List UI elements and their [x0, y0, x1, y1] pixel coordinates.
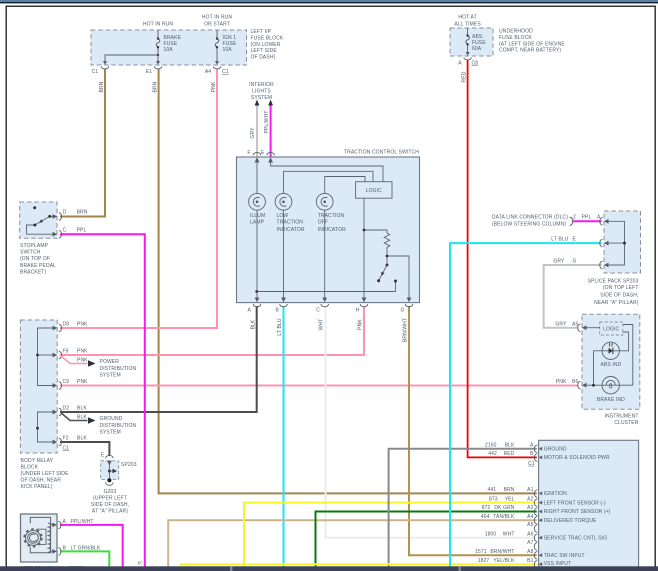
svg-text:C: C: [63, 227, 67, 233]
wheel speed sensor box: [21, 514, 58, 562]
svg-text:HOT AT: HOT AT: [458, 15, 476, 21]
branch PNK to power distribution: [61, 356, 88, 364]
svg-text:B: B: [276, 308, 280, 314]
svg-text:D8: D8: [63, 321, 70, 327]
EBCM pin A7: [534, 543, 537, 551]
coil leads to pins: [48, 523, 53, 552]
pin G (bottom): [407, 298, 412, 303]
svg-text:RED: RED: [504, 451, 515, 457]
wire traction off lamp to pin C: [324, 210, 326, 300]
svg-text:(AT LEFT SIDE OF ENGINE: (AT LEFT SIDE OF ENGINE: [499, 41, 565, 47]
svg-text:E1: E1: [146, 69, 152, 75]
wire PNK body relay C9 to cluster B6: [60, 385, 579, 387]
wire abs ind left to B6 wire: [594, 351, 603, 385]
pin A5: [582, 325, 587, 330]
svg-text:PNK: PNK: [211, 81, 217, 92]
pin A: [604, 219, 609, 224]
pin F9: [53, 353, 58, 358]
svg-text:LOW: LOW: [277, 213, 289, 219]
svg-text:2150: 2150: [485, 442, 497, 448]
svg-text:BRAKE IND: BRAKE IND: [597, 397, 625, 403]
wire PPL stoplamp C down page: [60, 234, 145, 566]
BRAKE IND lamp: [602, 377, 619, 394]
svg-text:873: 873: [489, 496, 498, 502]
svg-text:OFF: OFF: [318, 220, 328, 226]
pin B (bottom): [281, 298, 286, 303]
wire PPL/WHT sensor A down page: [60, 525, 123, 567]
tone wheel rings: [26, 530, 41, 545]
ABS IND led: [602, 342, 619, 359]
svg-text:BRN/WHT: BRN/WHT: [490, 549, 514, 555]
wire logic to abs ind right: [619, 332, 628, 351]
svg-text:HOT IN RUN: HOT IN RUN: [202, 15, 233, 21]
arrow to interior lights (GRY): [255, 100, 260, 106]
svg-text:SYSTEM: SYSTEM: [251, 95, 272, 101]
traction control switch box: [237, 157, 420, 303]
logic box: [356, 182, 392, 199]
svg-text:SWITCH: SWITCH: [20, 250, 41, 256]
svg-text:BODY RELAY: BODY RELAY: [21, 458, 54, 464]
underhood fuse block box: [450, 28, 493, 56]
svg-text:1827: 1827: [478, 558, 490, 564]
svg-text:OR START: OR START: [204, 22, 230, 28]
svg-text:PPL: PPL: [582, 215, 592, 221]
sensor core C-bracket: [30, 517, 50, 552]
wire low traction lamp to logic: [284, 171, 374, 193]
svg-text:SPLICE PACK SP203: SPLICE PACK SP203: [588, 278, 639, 284]
pin D: [53, 214, 58, 219]
pin D8: [53, 326, 58, 331]
wire YEL/BLK bottom to EBCM: [181, 564, 537, 566]
wire low traction lamp to pin B: [283, 210, 285, 300]
svg-text:D: D: [63, 210, 67, 216]
svg-text:441: 441: [487, 487, 496, 493]
svg-text:RIGHT FRONT SENSOR (+): RIGHT FRONT SENSOR (+): [544, 509, 611, 515]
svg-text:INSTRUMENT: INSTRUMENT: [605, 414, 639, 420]
wire PPL DLC to splice pack A: [572, 220, 601, 222]
svg-text:HOT IN RUN: HOT IN RUN: [143, 22, 174, 28]
svg-text:SYSTEM: SYSTEM: [100, 373, 121, 379]
svg-text:C1: C1: [222, 69, 229, 75]
svg-text:PNK: PNK: [358, 319, 364, 330]
EBCM pin A2: [534, 499, 537, 507]
ground G203: [107, 478, 111, 482]
svg-text:(ON TOP LEFT: (ON TOP LEFT: [603, 285, 639, 291]
wire PPL/WHT TCS E to interior lights: [270, 104, 272, 157]
stoplamp switch box: [20, 202, 57, 238]
svg-text:PNK: PNK: [77, 321, 88, 327]
svg-text:A: A: [530, 442, 534, 448]
wire PNK from fuse A4 to body relay D8: [60, 69, 217, 328]
svg-text:A1: A1: [527, 487, 533, 493]
arrow ground distribution: [88, 417, 96, 423]
svg-text:A: A: [458, 61, 462, 67]
arrow to interior lights (PPL/WHT): [268, 100, 273, 106]
svg-text:LT BLU: LT BLU: [551, 237, 568, 243]
wire BRN from fuse E1 to EBCM A1: [159, 69, 537, 493]
svg-text:A2: A2: [527, 496, 533, 502]
svg-text:ALL TIMES: ALL TIMES: [454, 22, 481, 28]
svg-text:A4: A4: [205, 69, 211, 75]
svg-text:60A: 60A: [472, 46, 482, 52]
svg-text:C1: C1: [92, 69, 99, 75]
pin E: [604, 241, 609, 246]
svg-text:(UNDER LEFT SIDE: (UNDER LEFT SIDE: [21, 471, 69, 477]
wire RED ABS fuse to EBCM B: [468, 60, 537, 458]
svg-text:SP203: SP203: [121, 462, 137, 468]
svg-text:KICK PANEL): KICK PANEL): [21, 484, 53, 490]
EBCM pin A3: [534, 508, 537, 516]
svg-text:PPL: PPL: [77, 227, 87, 233]
pin C: [53, 232, 58, 237]
pin B6: [582, 383, 587, 388]
pin A4 / C1: [215, 61, 219, 65]
svg-text:LT GRN/BLK: LT GRN/BLK: [71, 546, 101, 552]
svg-text:E: E: [573, 237, 577, 243]
svg-text:FUSE BLOCK: FUSE BLOCK: [251, 35, 284, 41]
svg-text:SIDE OF DASH,: SIDE OF DASH,: [91, 502, 129, 508]
svg-text:G203: G203: [104, 489, 117, 495]
svg-text:G: G: [573, 259, 577, 265]
svg-text:B: B: [530, 451, 534, 457]
svg-text:NEAR "A" PILLAR): NEAR "A" PILLAR): [594, 300, 639, 306]
svg-text:YEL: YEL: [505, 496, 515, 502]
svg-text:C1: C1: [528, 461, 535, 467]
svg-text:A4: A4: [527, 514, 533, 520]
tone wheel teeth: [24, 529, 41, 546]
svg-text:DELIVERED TORQUE: DELIVERED TORQUE: [544, 518, 597, 524]
fuse ABS FUSE 60A: [466, 28, 470, 53]
traction off indicator lamp: [316, 193, 333, 210]
svg-text:1571: 1571: [475, 549, 487, 555]
svg-text:MOTOR & SOLENOID PWR: MOTOR & SOLENOID PWR: [544, 455, 610, 461]
svg-text:POWER: POWER: [100, 359, 120, 365]
svg-text:SIDE OF DASH,: SIDE OF DASH,: [600, 293, 638, 299]
svg-text:SYSTEM: SYSTEM: [100, 430, 121, 436]
EBCM pin A4: [534, 517, 537, 525]
svg-text:B1: B1: [527, 558, 533, 564]
svg-text:x²: x²: [138, 561, 143, 567]
svg-text:10A: 10A: [164, 47, 174, 53]
svg-text:464: 464: [481, 514, 490, 520]
svg-text:BLK: BLK: [505, 442, 515, 448]
svg-text:GROUND: GROUND: [100, 416, 123, 422]
svg-text:INDICATOR: INDICATOR: [318, 227, 346, 233]
sensor coil: [48, 523, 50, 552]
svg-text:A7: A7: [527, 540, 533, 546]
svg-text:C1: C1: [63, 446, 70, 452]
svg-text:BRN: BRN: [99, 81, 105, 92]
svg-text:E: E: [261, 150, 265, 156]
left I/P fuse block box: [91, 30, 247, 65]
svg-text:WHT: WHT: [318, 319, 324, 331]
svg-text:B6: B6: [572, 379, 578, 385]
pin C1: [103, 61, 107, 65]
svg-text:YEL/BLK: YEL/BLK: [493, 558, 515, 564]
svg-text:(UPPER LEFT: (UPPER LEFT: [93, 496, 127, 502]
svg-text:A6: A6: [527, 531, 533, 537]
EBCM pin A1: [534, 490, 537, 498]
pin H (bottom): [362, 298, 367, 303]
fuse IGN 1 FUSE 10A: [215, 30, 219, 62]
svg-text:DISTRIBUTION: DISTRIBUTION: [100, 423, 137, 429]
pin F2: [53, 440, 58, 445]
svg-text:BRN: BRN: [504, 487, 515, 493]
pin F (top): [253, 152, 261, 155]
svg-text:TRAC SW INPUT: TRAC SW INPUT: [544, 553, 585, 559]
pin C9: [53, 383, 58, 388]
svg-text:ILLUM: ILLUM: [250, 213, 265, 219]
svg-text:INDICATOR: INDICATOR: [277, 227, 305, 233]
wire YEL from bottom to EBCM A2: [244, 503, 537, 567]
EBCM pin A6: [534, 534, 537, 542]
svg-text:BRACKET): BRACKET): [20, 269, 46, 275]
wire WHT TCS C to EBCM A6: [326, 306, 537, 538]
svg-text:TAN/BLK: TAN/BLK: [493, 514, 515, 520]
svg-text:GRY: GRY: [555, 322, 567, 328]
EBCM pin B: [534, 454, 537, 462]
svg-text:PNK: PNK: [77, 348, 88, 354]
fuse BRAKE FUSE 10A: [105, 30, 160, 62]
junction dots: [363, 229, 366, 232]
wire LT BLU TCS B down page: [283, 306, 285, 567]
svg-text:872: 872: [482, 505, 491, 511]
sensor pole core: [36, 529, 46, 544]
svg-text:SERVICE TRAC CNTL SIG: SERVICE TRAC CNTL SIG: [544, 535, 608, 541]
svg-text:FUSE BLOCK: FUSE BLOCK: [499, 35, 532, 41]
svg-text:LOGIC: LOGIC: [366, 188, 382, 194]
svg-text:G: G: [400, 308, 404, 314]
arrow power distribution: [88, 360, 96, 366]
svg-text:A3: A3: [527, 505, 533, 511]
svg-text:(ON LOWER: (ON LOWER: [251, 42, 281, 48]
pin A (bottom): [255, 298, 260, 303]
pin D2: [53, 410, 58, 415]
wire resistor branch: [364, 230, 387, 233]
svg-text:B: B: [63, 546, 67, 552]
switch contact dot (top): [33, 206, 36, 209]
wire DK GRN from bottom to EBCM A3: [316, 512, 537, 567]
svg-text:STOPLAMP: STOPLAMP: [20, 243, 49, 249]
wire logic to brake ind right: [619, 325, 632, 386]
illum lamp: [249, 193, 266, 210]
svg-text:D2: D2: [63, 405, 70, 411]
svg-text:DATA LINK CONNECTOR (DLC): DATA LINK CONNECTOR (DLC): [492, 215, 568, 221]
internal bus D8-F9-C9: [38, 328, 54, 442]
svg-text:IGNITION: IGNITION: [544, 491, 567, 497]
EBCM (electronic brake control module) box: [539, 440, 639, 571]
svg-text:2: 2: [573, 215, 576, 221]
svg-text:1800: 1800: [485, 531, 497, 537]
EBCM pin A: [534, 445, 537, 453]
svg-text:C8: C8: [472, 61, 479, 67]
svg-text:TRACTION: TRACTION: [277, 220, 304, 226]
svg-text:LEFT FRONT SENSOR (-): LEFT FRONT SENSOR (-): [544, 500, 606, 506]
svg-text:COMPT, NEAR BATTERY): COMPT, NEAR BATTERY): [499, 48, 561, 54]
wire BLK body relay F2 to splice SP203: [60, 442, 109, 456]
splice pack SP203 box: [101, 461, 119, 480]
svg-text:WHT: WHT: [503, 531, 515, 537]
wire BLK body relay D2 to TCS A: [60, 306, 257, 412]
svg-text:F9: F9: [63, 348, 69, 354]
pin E1: [156, 61, 160, 65]
body relay block box: [20, 320, 57, 453]
EBCM pin A8: [534, 552, 537, 560]
pin A: [52, 523, 57, 528]
svg-text:C: C: [316, 308, 320, 314]
svg-text:A: A: [248, 308, 252, 314]
wire B6 to brake ind: [586, 384, 602, 386]
wire LT BLU splice pack E down page: [450, 243, 602, 566]
pin E (top): [106, 455, 114, 458]
wire F through illum lamp to pin A: [256, 161, 258, 301]
svg-text:BLOCK: BLOCK: [21, 465, 39, 471]
svg-text:DK GRN: DK GRN: [494, 505, 514, 511]
pin G: [604, 263, 609, 268]
svg-text:BRN/WHT: BRN/WHT: [403, 318, 409, 342]
svg-text:OF DASH): OF DASH): [251, 55, 276, 61]
switch arm: [379, 256, 387, 280]
svg-text:PNK: PNK: [556, 379, 567, 385]
branch BLK to ground distribution: [61, 413, 88, 421]
svg-text:(ON TOP OF: (ON TOP OF: [20, 256, 50, 262]
wire PNK body relay F9 to TCS H: [60, 306, 364, 355]
wire GRY splice pack G to cluster A5: [544, 265, 602, 328]
svg-text:OF DASH, NEAR: OF DASH, NEAR: [21, 478, 62, 484]
wire E to logic: [271, 161, 383, 182]
svg-text:BLK: BLK: [77, 414, 87, 420]
svg-text:PNK: PNK: [77, 379, 88, 385]
svg-text:LAMP: LAMP: [250, 220, 265, 226]
wire logic to pin H: [363, 198, 365, 300]
svg-text:E: E: [101, 453, 105, 459]
EBCM pin B1: [534, 561, 537, 569]
wire traction off lamp to logic: [325, 177, 365, 194]
svg-text:DISTRIBUTION: DISTRIBUTION: [100, 366, 137, 372]
svg-text:10A: 10A: [223, 47, 233, 53]
svg-text:GRY: GRY: [553, 259, 565, 265]
pin B: [52, 549, 57, 554]
wire GRY TCS F to interior lights: [256, 104, 258, 157]
svg-text:TRACTION: TRACTION: [318, 213, 345, 219]
svg-text:BRN: BRN: [77, 210, 88, 216]
svg-text:A8: A8: [527, 549, 533, 555]
switch contact return wire: [257, 281, 396, 292]
svg-text:A: A: [63, 519, 67, 525]
wire BRN from fuse C1 to stoplamp switch D: [60, 69, 105, 217]
tone wheel inner arc: [30, 534, 37, 541]
svg-text:CLUSTER: CLUSTER: [614, 420, 638, 426]
svg-text:LEFT SIDE: LEFT SIDE: [251, 48, 278, 54]
wire TAN/BLK from bottom to EBCM A4: [168, 520, 537, 566]
svg-text:TRACTION CONTROL SWITCH: TRACTION CONTROL SWITCH: [344, 150, 419, 156]
svg-text:PPL/WHT: PPL/WHT: [264, 110, 270, 133]
svg-text:LEFT I/P: LEFT I/P: [251, 29, 272, 35]
svg-text:BLK: BLK: [77, 405, 87, 411]
svg-text:PNK: PNK: [77, 357, 88, 363]
svg-text:UNDERHOOD: UNDERHOOD: [499, 29, 533, 35]
EBCM pin A5: [534, 525, 537, 533]
switch arm and linkage: [27, 216, 54, 234]
svg-text:442: 442: [488, 451, 497, 457]
svg-text:GRY: GRY: [250, 127, 256, 139]
svg-text:BLK: BLK: [77, 435, 87, 441]
svg-text:F: F: [247, 150, 250, 156]
svg-text:C9: C9: [63, 379, 70, 385]
arrowhead on stoplamp arm: [39, 219, 43, 222]
pin C (bottom): [322, 298, 327, 303]
svg-text:PPL/WHT: PPL/WHT: [71, 519, 94, 525]
wire LT GRN/BLK sensor B down page: [60, 551, 109, 566]
bottom status bar: [0, 566, 658, 571]
wire BRN/WHT TCS G to EBCM A8: [409, 306, 537, 555]
splice bus: [108, 463, 110, 480]
resistor: [384, 233, 390, 256]
svg-text:(BELOW STEERING COLUMN): (BELOW STEERING COLUMN): [492, 221, 566, 227]
svg-text:ABS IND: ABS IND: [600, 362, 621, 368]
svg-text:GROUND: GROUND: [544, 446, 567, 452]
svg-text:H: H: [356, 308, 360, 314]
svg-text:A5: A5: [527, 522, 533, 528]
pin E (top): [267, 152, 275, 155]
svg-text:LOGIC: LOGIC: [603, 327, 619, 333]
pin A / C8: [466, 52, 470, 56]
svg-text:A: A: [597, 215, 601, 221]
internal bus: [608, 221, 625, 265]
wire resistor to pin G: [387, 256, 409, 301]
DLC connector curl: [570, 217, 573, 225]
wire BLK 2150 EBCM A to bottom: [389, 449, 537, 567]
splice pack SP203 box (right): [604, 211, 641, 273]
svg-text:A5: A5: [572, 322, 578, 328]
svg-text:RED: RED: [461, 71, 467, 82]
cluster logic box: [600, 322, 623, 335]
svg-text:F2: F2: [63, 435, 69, 441]
svg-text:INTERIOR: INTERIOR: [249, 82, 274, 88]
wire A5 to logic: [586, 327, 600, 329]
svg-text:AT "A" PILLAR): AT "A" PILLAR): [92, 509, 128, 515]
svg-text:BRAKE PEDAL: BRAKE PEDAL: [20, 263, 56, 269]
arrowhead on switch arm: [381, 272, 384, 276]
low traction indicator lamp: [275, 193, 292, 210]
svg-text:BRN: BRN: [153, 81, 159, 92]
svg-text:BLK: BLK: [251, 319, 257, 329]
top window bar: [0, 0, 658, 2]
svg-text:LT BLU: LT BLU: [277, 318, 283, 335]
instrument cluster box: [582, 314, 640, 409]
svg-text:LIGHTS: LIGHTS: [252, 88, 271, 94]
